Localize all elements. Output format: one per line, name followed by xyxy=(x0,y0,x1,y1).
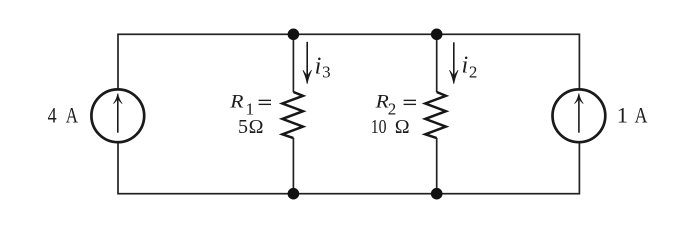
svg-text:A: A xyxy=(635,103,648,128)
svg-text:2: 2 xyxy=(469,63,478,82)
svg-text:Ω: Ω xyxy=(395,116,410,138)
current source I1 arrow (up) xyxy=(113,93,122,132)
svg-text:1: 1 xyxy=(617,103,628,128)
svg-text:4: 4 xyxy=(48,103,57,128)
svg-text:10: 10 xyxy=(371,116,387,138)
current source I2 arrow (up) xyxy=(575,93,584,132)
svg-text:3: 3 xyxy=(322,63,331,82)
label: i3 current name xyxy=(315,53,331,81)
resistor R1 zigzag xyxy=(282,92,303,138)
label: 10 ohm value xyxy=(371,116,410,138)
wire: outer rectangle loop (top, bottom, left, right) xyxy=(118,34,579,193)
label: 5 ohm value xyxy=(238,116,263,138)
wire: R2 branch vertical leads xyxy=(436,34,438,193)
wire: R1 branch vertical leads xyxy=(292,34,294,193)
svg-text:A: A xyxy=(66,103,79,128)
label: R1 = xyxy=(229,92,271,119)
node: bottom junction of R2 xyxy=(431,188,443,200)
resistor R2 zigzag xyxy=(425,92,446,138)
label: R2 = xyxy=(375,92,416,119)
current arrow i2 (down) xyxy=(450,42,459,84)
node: bottom junction of R1 xyxy=(288,188,300,200)
label: i2 current name xyxy=(462,53,478,82)
node: top junction of R2 xyxy=(431,29,443,41)
node: top junction of R1 xyxy=(288,29,300,41)
svg-text:Ω: Ω xyxy=(249,116,264,138)
svg-text:i: i xyxy=(462,53,469,79)
svg-text:5: 5 xyxy=(238,116,248,138)
label: 4 A source value xyxy=(48,103,79,128)
current arrow i3 (down) xyxy=(303,42,312,84)
current source I1 (4 A) circle xyxy=(91,89,144,142)
label: 1 A source value xyxy=(617,103,648,128)
svg-text:i: i xyxy=(315,53,322,79)
current source I2 (1 A) circle xyxy=(553,89,606,142)
svg-text:R: R xyxy=(229,92,244,113)
